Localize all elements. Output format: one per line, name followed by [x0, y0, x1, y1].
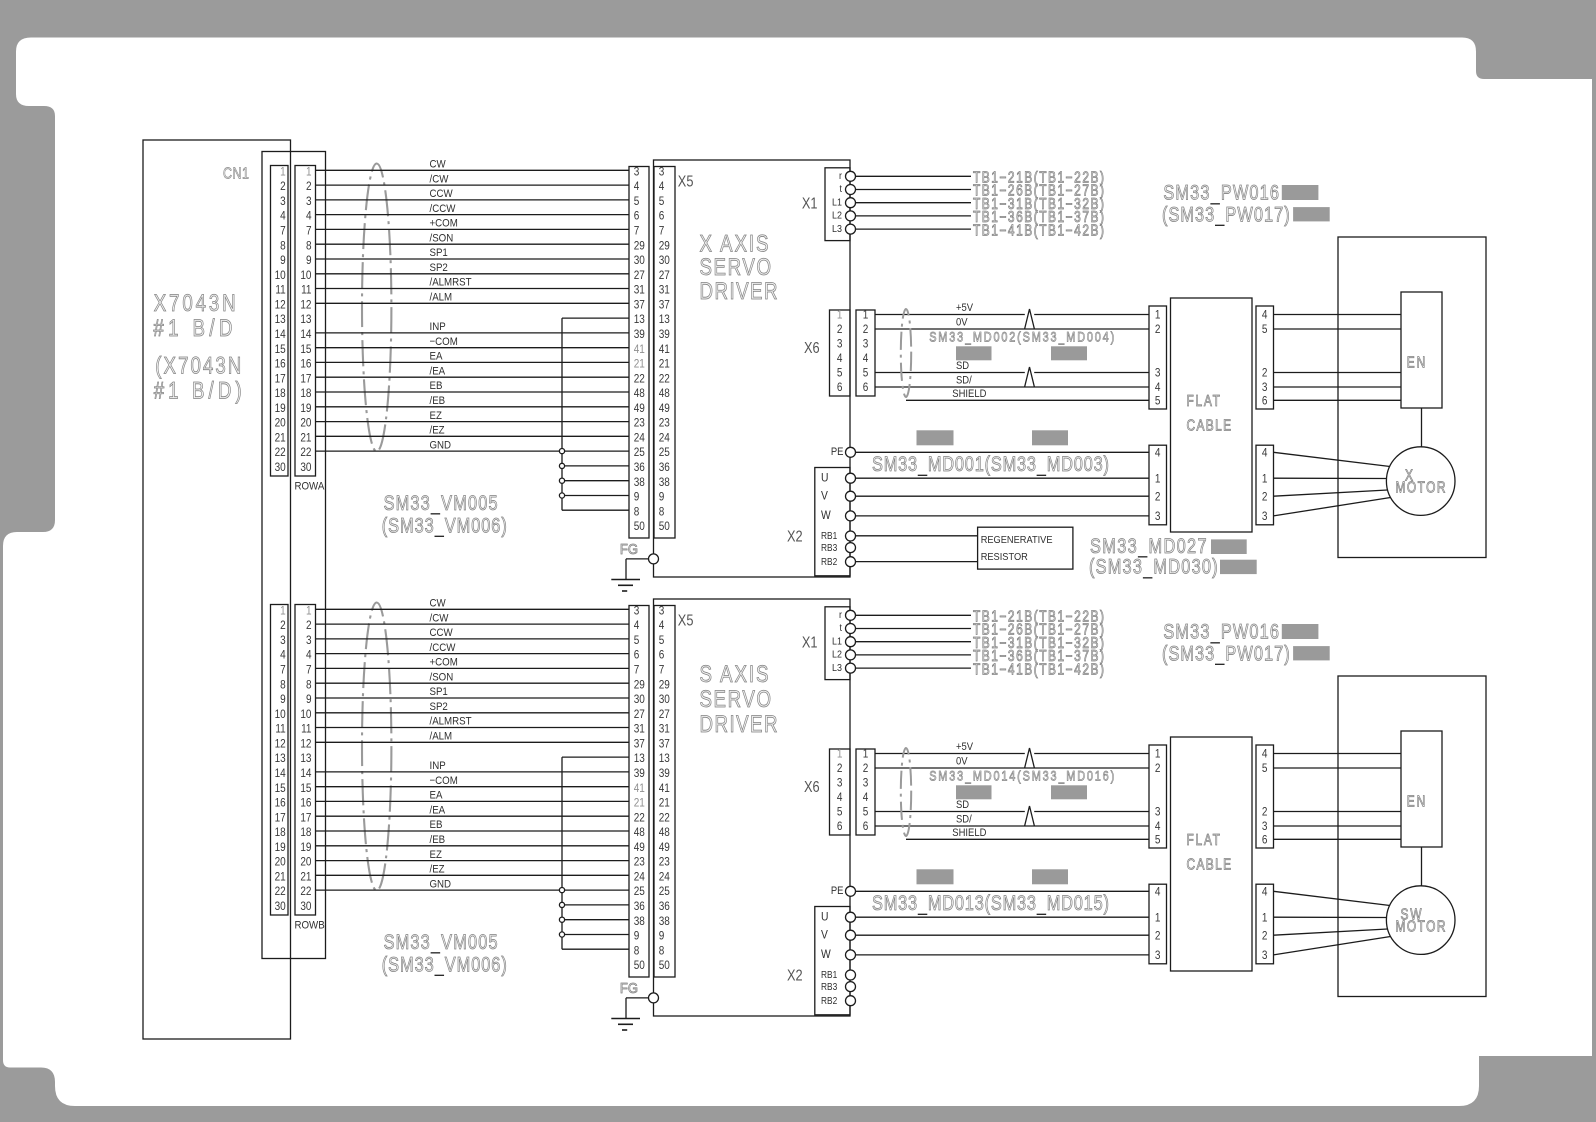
flat cable input pin numbers lower (X axis) [1155, 447, 1161, 524]
svg-text:41: 41 [659, 782, 670, 795]
gray box 1 above PE wire (X axis) [917, 430, 954, 445]
label SM33_MD014(SM33_MD016) (S axis) [929, 768, 1114, 784]
svg-text:ROWB: ROWB [295, 919, 325, 932]
label TB1-41B(TB1-42B) (S axis) [973, 661, 1104, 678]
svg-text:22: 22 [659, 811, 670, 824]
label FG (S axis) [620, 979, 638, 996]
label EN (S axis) [1407, 793, 1425, 810]
svg-text:3: 3 [659, 605, 665, 618]
svg-text:SP2: SP2 [430, 700, 448, 713]
svg-text:(X7043N: (X7043N [155, 352, 241, 379]
svg-text:30: 30 [634, 254, 645, 267]
svg-text:4: 4 [1155, 886, 1161, 899]
label EA (X axis) [430, 350, 443, 363]
label X2 pin RB2 (S axis) [821, 995, 837, 1006]
label SM33_PW017 (S axis) [1162, 642, 1290, 667]
svg-text:4: 4 [1262, 309, 1268, 322]
connector X5 driver-side pin column (X axis) [654, 167, 675, 539]
svg-text:1: 1 [306, 166, 312, 179]
svg-text:36: 36 [634, 461, 645, 474]
svg-text:+COM: +COM [430, 217, 458, 230]
svg-text:8: 8 [306, 239, 312, 252]
svg-text:/SON: /SON [430, 232, 454, 245]
label SM33_MD013(SM33_MD015) (S axis) [872, 891, 1109, 916]
svg-text:20: 20 [300, 856, 311, 869]
motor unit box (X axis) [1338, 237, 1486, 558]
svg-text:31: 31 [659, 723, 670, 736]
motor circle (S axis) [1386, 886, 1455, 955]
svg-text:17: 17 [300, 811, 311, 824]
svg-text:CW: CW [430, 597, 446, 610]
connector CN1 row-A pin column (X axis) [271, 166, 289, 477]
label CABLE (S axis) [1187, 856, 1232, 873]
motor power wire 1 (S axis) [1274, 891, 1391, 905]
svg-text:30: 30 [275, 461, 286, 474]
label /EZ (S axis) [430, 863, 446, 876]
svg-text:14: 14 [300, 767, 311, 780]
label SHIELD (X axis) [952, 388, 986, 400]
svg-text:11: 11 [275, 284, 285, 297]
svg-text:2: 2 [1155, 490, 1161, 503]
label SD/ (S axis) [956, 814, 972, 826]
GND net vertical tie wire (S axis) [561, 757, 563, 949]
svg-text:3: 3 [1262, 510, 1268, 523]
label TB1-26B(TB1-27B) (S axis) [973, 621, 1104, 638]
svg-text:3: 3 [1262, 949, 1268, 962]
svg-text:37: 37 [659, 738, 670, 751]
svg-text:17: 17 [275, 372, 286, 385]
FLAT CABLE box (S axis) [1171, 737, 1253, 971]
label EZ (X axis) [430, 409, 443, 422]
svg-text:23: 23 [659, 417, 670, 430]
label SP2 (S axis) [430, 700, 448, 713]
motor power wire 1 (X axis) [1274, 452, 1391, 466]
svg-text:FLAT: FLAT [1187, 392, 1221, 409]
X6 pin numbers (S axis) [837, 748, 868, 834]
terminal circle X2-W (X axis) [846, 511, 856, 521]
svg-text:/EA: /EA [430, 365, 446, 378]
svg-text:18: 18 [300, 387, 311, 400]
svg-text:EB: EB [430, 380, 443, 393]
svg-text:W: W [821, 509, 831, 522]
terminal circle X1-L3 (S axis) [846, 663, 856, 673]
label /EA (S axis) [430, 804, 446, 817]
label X6 (S axis) [804, 779, 820, 797]
CN1 pin numbers row A (X axis) [275, 166, 286, 475]
svg-text:1: 1 [306, 605, 312, 618]
flat cable input pin numbers lower (S axis) [1155, 886, 1161, 963]
wire X1-t to TB1-26B(TB1-27B) (X axis) [856, 189, 971, 191]
svg-text:1: 1 [1155, 748, 1161, 761]
FG wire vertical (S axis) [625, 998, 627, 1019]
svg-text:2: 2 [1155, 762, 1161, 775]
svg-text:8: 8 [634, 505, 640, 518]
wire flat cable 4 to EN (X axis) [1274, 314, 1402, 316]
svg-text:18: 18 [275, 387, 286, 400]
gray box after SM33_MD027 [1211, 539, 1247, 554]
wire flat cable 6 to EN (S axis) [1274, 838, 1402, 840]
svg-text:5: 5 [659, 195, 665, 208]
X5 pin numbers driver side (X axis) [659, 166, 670, 534]
svg-text:X7043N: X7043N [154, 290, 236, 317]
svg-text:1: 1 [863, 748, 869, 761]
svg-text:21: 21 [659, 797, 670, 810]
wire EZ CN1 to X5-23 (S axis) [316, 860, 630, 862]
svg-text:4: 4 [659, 180, 665, 193]
svg-text:30: 30 [275, 900, 286, 913]
label X2 (X axis) [787, 528, 803, 546]
EN block (X axis) [1401, 292, 1442, 408]
svg-text:31: 31 [659, 284, 670, 297]
label 0V (S axis) [956, 756, 968, 768]
svg-text:−COM: −COM [430, 774, 458, 787]
terminal circle PE (S axis) [846, 886, 856, 896]
label GND (S axis) [430, 878, 452, 891]
svg-text:2: 2 [837, 323, 843, 336]
svg-text:5: 5 [1262, 323, 1268, 336]
svg-text:+5V: +5V [956, 303, 973, 315]
svg-text:4: 4 [1262, 447, 1268, 460]
svg-text:r: r [839, 170, 843, 182]
svg-text:8: 8 [280, 678, 286, 691]
svg-text:13: 13 [634, 752, 645, 765]
label X2 pin W (X axis) [821, 509, 831, 522]
X5 pin numbers driver side (S axis) [659, 605, 670, 973]
svg-text:36: 36 [634, 900, 645, 913]
wire SP2 CN1 to X5-27 (X axis) [316, 273, 630, 275]
wire GND CN1 to X5-25 (X axis) [316, 450, 630, 452]
terminal circle X2-RB3 (X axis) [846, 543, 856, 553]
label SD (S axis) [956, 800, 969, 812]
label /CCW (S axis) [430, 641, 456, 654]
label X1 pin r (X axis) [839, 170, 843, 182]
svg-text:22: 22 [300, 446, 311, 459]
label PE (S axis) [831, 885, 844, 897]
svg-text:1: 1 [1155, 911, 1161, 924]
svg-text:12: 12 [300, 299, 311, 312]
label X1 pin L3 (S axis) [832, 662, 842, 674]
wire INP CN1 to X5-39 (X axis) [316, 332, 630, 334]
svg-text:27: 27 [659, 708, 670, 721]
gray box after SM33_PW017 (S axis) [1293, 646, 1330, 660]
svg-text:V: V [821, 490, 828, 503]
gray box 2 above PE wire (X axis) [1032, 430, 1068, 445]
FG wire vertical (X axis) [625, 559, 627, 580]
label /ALM (X axis) [430, 291, 453, 304]
svg-text:/SON: /SON [430, 671, 454, 684]
svg-text:L2: L2 [832, 649, 842, 661]
svg-text:SD/: SD/ [956, 375, 972, 387]
svg-text:23: 23 [634, 417, 645, 430]
wire X2-U to flat cable (X axis) [856, 477, 1149, 479]
svg-text:13: 13 [659, 752, 670, 765]
svg-text:27: 27 [659, 269, 670, 282]
svg-text:22: 22 [634, 811, 645, 824]
label X1 pin t (X axis) [840, 184, 843, 196]
svg-text:24: 24 [659, 871, 670, 884]
svg-text:TB1−41B(TB1−42B): TB1−41B(TB1−42B) [973, 661, 1104, 678]
flat cable input pin column upper (S axis) [1149, 745, 1167, 848]
svg-text:X2: X2 [787, 967, 803, 985]
wire stub to X5-36 (X axis) [562, 465, 629, 467]
svg-text:6: 6 [863, 381, 869, 394]
svg-text:48: 48 [659, 387, 670, 400]
wire X1-L3 to TB1-41B(TB1-42B) (S axis) [856, 667, 971, 669]
label PE (X axis) [831, 446, 844, 458]
svg-text:16: 16 [300, 797, 311, 810]
wire stub to X5-8 (S axis) [562, 948, 629, 950]
svg-text:6: 6 [837, 820, 843, 833]
connector X6 cable-side pin column (S axis) [856, 749, 875, 835]
svg-text:X1: X1 [802, 634, 818, 652]
wire stub to X5-38 (X axis) [562, 480, 629, 482]
wire CW CN1 to X5-3 (X axis) [316, 169, 630, 171]
label SHIELD (S axis) [952, 827, 986, 839]
svg-text:+5V: +5V [956, 742, 973, 754]
wire X1-L1 to TB1-31B(TB1-32B) (X axis) [856, 202, 971, 204]
svg-text:4: 4 [306, 649, 312, 662]
wire SP1 CN1 to X5-30 (S axis) [316, 697, 630, 699]
svg-text:9: 9 [634, 491, 640, 504]
wire flat cable 5 to EN (S axis) [1274, 767, 1402, 769]
svg-text:X1: X1 [802, 195, 818, 213]
label SM33_VM006 (X axis) [382, 514, 507, 539]
svg-text:7: 7 [634, 664, 640, 677]
svg-text:31: 31 [634, 723, 645, 736]
svg-text:3: 3 [634, 605, 640, 618]
label 0V (X axis) [956, 317, 968, 329]
label SM33_MD001(SM33_MD003) (X axis) [872, 452, 1109, 477]
junction on GND net at X5-9 row (X axis) [559, 493, 564, 498]
svg-text:3: 3 [1262, 820, 1268, 833]
terminal circle X2-U (S axis) [846, 912, 856, 922]
label TB1-26B(TB1-27B) (X axis) [973, 182, 1104, 199]
flat cable output pin numbers upper (X axis) [1262, 309, 1268, 408]
wire flat cable 2 to EN (S axis) [1274, 811, 1402, 813]
connector X2 box (S axis) [815, 907, 850, 1015]
label X2 pin W (S axis) [821, 948, 831, 961]
svg-text:5: 5 [1155, 395, 1161, 408]
svg-text:/CW: /CW [430, 612, 449, 625]
svg-text:21: 21 [659, 358, 670, 371]
svg-text:22: 22 [634, 372, 645, 385]
wire X1-r to TB1-21B(TB1-22B) (X axis) [856, 175, 971, 177]
label SM33_MD027 [1090, 534, 1207, 559]
svg-text:30: 30 [659, 693, 670, 706]
label +COM (S axis) [430, 656, 458, 669]
svg-text:10: 10 [275, 708, 286, 721]
label X2 (S axis) [787, 967, 803, 985]
terminal circle X2-U (X axis) [846, 473, 856, 483]
label ROWB [295, 919, 325, 932]
svg-text:6: 6 [1262, 834, 1268, 847]
terminal circle X1-L2 (X axis) [846, 211, 856, 221]
gray box after SM33_MD030 [1220, 560, 1257, 574]
gray box 1 under SM33_MD014(SM33_MD016) (S axis) [956, 785, 992, 799]
ground symbol (X axis) [611, 580, 640, 592]
label CW (X axis) [430, 158, 446, 171]
wire flat cable 5 to EN (X axis) [1274, 328, 1402, 330]
svg-text:INP: INP [430, 759, 446, 772]
label /EB (S axis) [430, 833, 446, 846]
svg-text:SM33_MD013(SM33_MD015): SM33_MD013(SM33_MD015) [872, 891, 1109, 916]
connector X5 cable-side pin column (S axis) [629, 606, 649, 978]
wire flat cable 3 to EN (X axis) [1274, 386, 1402, 388]
svg-text:8: 8 [659, 505, 665, 518]
CN1 pin numbers row A (S axis) [275, 605, 286, 914]
svg-text:3: 3 [1155, 806, 1161, 819]
svg-text:3: 3 [634, 166, 640, 179]
svg-text:49: 49 [659, 402, 670, 415]
label -COM (X axis) [430, 335, 458, 348]
wire X1-L2 to TB1-36B(TB1-37B) (X axis) [856, 215, 971, 217]
svg-text:37: 37 [634, 738, 645, 751]
svg-text:4: 4 [659, 619, 665, 632]
flat cable output pin column upper (S axis) [1256, 745, 1274, 848]
svg-text:SP2: SP2 [430, 261, 448, 274]
flat cable input pin column lower (X axis) [1149, 445, 1167, 525]
svg-text:29: 29 [634, 239, 645, 252]
svg-text:31: 31 [634, 284, 645, 297]
flat cable output pin numbers lower (S axis) [1262, 886, 1268, 963]
svg-text:3: 3 [837, 338, 843, 351]
svg-text:39: 39 [659, 328, 670, 341]
svg-text:/EZ: /EZ [430, 424, 446, 437]
label RESISTOR [981, 551, 1028, 563]
svg-text:6: 6 [659, 210, 665, 223]
wire +5V X6 to flat cable (S axis) [875, 753, 1149, 755]
svg-text:10: 10 [275, 269, 286, 282]
svg-text:6: 6 [863, 820, 869, 833]
svg-text:15: 15 [275, 782, 286, 795]
svg-text:X6: X6 [804, 779, 820, 797]
svg-text:24: 24 [634, 432, 645, 445]
wire flat cable 6 to EN (X axis) [1274, 399, 1402, 401]
wire stub to X5-9 (S axis) [562, 934, 629, 936]
wire /ALM CN1 to X5-37 (X axis) [316, 302, 630, 304]
svg-text:2: 2 [1155, 929, 1161, 942]
label SM33_PW016 (X axis) [1163, 181, 1279, 206]
svg-text:2: 2 [1262, 806, 1268, 819]
svg-text:EB: EB [430, 819, 443, 832]
svg-text:5: 5 [837, 806, 843, 819]
svg-text:4: 4 [280, 649, 286, 662]
svg-text:4: 4 [837, 352, 843, 365]
svg-text:#1 B/D): #1 B/D) [154, 377, 242, 404]
gray box 2 under SM33_MD014(SM33_MD016) (S axis) [1051, 785, 1087, 799]
wire +COM CN1 to X5-7 (X axis) [316, 228, 630, 230]
label X1 (S axis) [802, 634, 818, 652]
svg-text:6: 6 [837, 381, 843, 394]
svg-text:ROWA: ROWA [295, 480, 325, 493]
svg-text:49: 49 [634, 402, 645, 415]
wire /EB CN1 to X5-49 (S axis) [316, 845, 630, 847]
svg-text:SM33_MD014(SM33_MD016): SM33_MD014(SM33_MD016) [929, 768, 1114, 784]
label X5 (S axis) [678, 612, 694, 630]
svg-text:6: 6 [659, 649, 665, 662]
svg-text:2: 2 [1262, 929, 1268, 942]
svg-text:1: 1 [280, 166, 286, 179]
svg-text:38: 38 [659, 915, 670, 928]
label X1 pin L2 (X axis) [832, 210, 842, 222]
wire /CW CN1 to X5-4 (S axis) [316, 623, 630, 625]
svg-text:2: 2 [863, 762, 869, 775]
svg-text:13: 13 [659, 313, 670, 326]
svg-text:2: 2 [1155, 323, 1161, 336]
svg-text:8: 8 [659, 944, 665, 957]
svg-text:13: 13 [275, 313, 286, 326]
wire EA CN1 to X5-21 (S axis) [316, 800, 630, 802]
svg-text:22: 22 [300, 885, 311, 898]
svg-text:5: 5 [634, 195, 640, 208]
terminal circle X1-r (S axis) [846, 610, 856, 620]
svg-text:L2: L2 [832, 210, 842, 222]
svg-text:t: t [840, 623, 843, 635]
svg-text:19: 19 [300, 841, 311, 854]
svg-text:TB1−41B(TB1−42B): TB1−41B(TB1−42B) [973, 222, 1104, 239]
svg-text:3: 3 [863, 777, 869, 790]
svg-text:(SM33_PW017): (SM33_PW017) [1162, 203, 1290, 228]
wire CW CN1 to X5-3 (S axis) [316, 608, 630, 610]
svg-text:38: 38 [659, 476, 670, 489]
svg-text:25: 25 [659, 885, 670, 898]
flat cable output pin column lower (X axis) [1256, 445, 1274, 525]
wire /ALM CN1 to X5-37 (S axis) [316, 741, 630, 743]
gray box 1 under SM33_MD002(SM33_MD004) (X axis) [956, 346, 992, 360]
cable shield ellipse (S axis) [362, 603, 391, 891]
svg-text:2: 2 [1262, 490, 1268, 503]
servo driver box (S AXIS SERVO DRIVER) [654, 599, 851, 1016]
label X1 pin L3 (X axis) [832, 223, 842, 235]
wire -COM CN1 to X5-41 (X axis) [316, 347, 630, 349]
label X2 pin RB3 (X axis) [821, 542, 837, 553]
svg-text:U: U [821, 911, 828, 924]
svg-text:/EB: /EB [430, 394, 446, 407]
svg-text:/CW: /CW [430, 173, 449, 186]
svg-text:9: 9 [634, 930, 640, 943]
terminal circle X1-L2 (S axis) [846, 650, 856, 660]
svg-text:X5: X5 [678, 173, 694, 191]
svg-text:V: V [821, 929, 828, 942]
svg-text:RB3: RB3 [821, 981, 837, 992]
svg-text:30: 30 [634, 693, 645, 706]
cable shield ellipse (X axis) [362, 164, 391, 452]
svg-text:#1 B/D: #1 B/D [153, 315, 232, 342]
X5 pin numbers cable side (X axis) [634, 166, 645, 534]
svg-text:RB2: RB2 [821, 556, 837, 567]
wire SP1 CN1 to X5-30 (X axis) [316, 258, 630, 260]
motor unit box (S axis) [1338, 676, 1486, 997]
wire /CCW CN1 to X5-6 (X axis) [316, 214, 630, 216]
connector CN1 row-B pin column (S axis) [295, 605, 316, 916]
svg-text:SERVO: SERVO [700, 686, 772, 713]
FLAT CABLE box (X axis) [1171, 298, 1253, 532]
FG wire horizontal (S axis) [626, 997, 649, 999]
svg-text:15: 15 [275, 343, 286, 356]
wire X1-t to TB1-26B(TB1-27B) (S axis) [856, 628, 971, 630]
label ROWA [295, 480, 325, 493]
svg-text:RB1: RB1 [821, 531, 837, 542]
svg-text:1: 1 [280, 605, 286, 618]
svg-text:SHIELD: SHIELD [952, 827, 986, 839]
svg-text:2: 2 [280, 619, 286, 632]
junction on GND net at X5-9 row (S axis) [559, 932, 564, 937]
svg-text:0V: 0V [956, 317, 968, 329]
wire 0V X6 to flat cable (X axis) [875, 328, 1149, 330]
svg-text:37: 37 [659, 299, 670, 312]
wire SHIELD to flat cable (X axis) [906, 399, 1149, 401]
FG wire horizontal (X axis) [626, 558, 649, 560]
